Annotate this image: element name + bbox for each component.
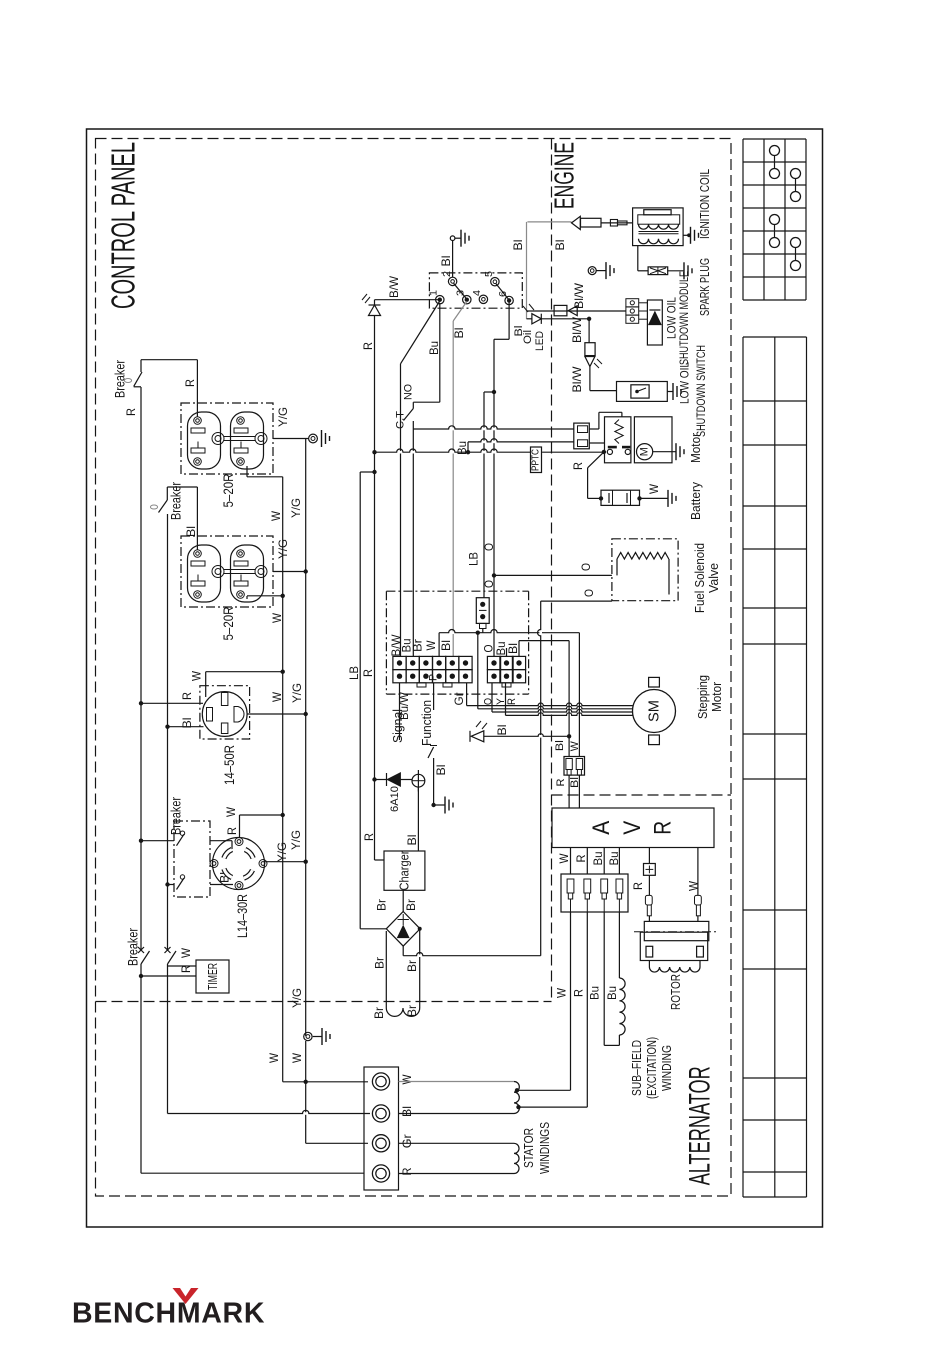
- svg-text:R: R: [180, 692, 194, 700]
- svg-text:Y/G: Y/G: [289, 498, 303, 518]
- svg-text:5–20R: 5–20R: [220, 474, 236, 508]
- svg-text:Valve: Valve: [707, 563, 721, 593]
- svg-text:BENCHMARK: BENCHMARK: [72, 1298, 265, 1330]
- svg-text:W: W: [290, 1052, 304, 1063]
- svg-text:Br: Br: [404, 899, 418, 911]
- svg-text:Br: Br: [411, 639, 425, 652]
- svg-text:6A10: 6A10: [389, 786, 401, 812]
- svg-text:Bl: Bl: [569, 777, 581, 788]
- svg-text:Bl/W: Bl/W: [570, 366, 584, 393]
- svg-text:Br: Br: [375, 899, 389, 911]
- svg-text:ENGINE: ENGINE: [549, 142, 580, 209]
- svg-text:Bl/W: Bl/W: [570, 316, 584, 343]
- svg-text:Bu: Bu: [607, 852, 621, 866]
- svg-text:PPTC: PPTC: [531, 449, 542, 471]
- svg-text:Bu: Bu: [427, 341, 441, 355]
- svg-text:W: W: [179, 947, 193, 958]
- svg-text:SHUTDOWN SWITCH: SHUTDOWN SWITCH: [694, 345, 708, 437]
- svg-text:R: R: [225, 827, 239, 835]
- svg-text:W: W: [687, 880, 701, 891]
- svg-text:2: 2: [442, 271, 453, 277]
- svg-text:Br: Br: [373, 957, 387, 969]
- svg-text:Bl: Bl: [405, 835, 419, 846]
- svg-text:Bu: Bu: [455, 441, 469, 455]
- svg-text:LED: LED: [534, 331, 546, 351]
- svg-text:R: R: [631, 882, 645, 890]
- svg-text:ROTOR: ROTOR: [669, 974, 683, 1010]
- svg-text:R: R: [506, 698, 518, 705]
- svg-text:W: W: [224, 806, 238, 817]
- svg-text:A: A: [588, 821, 615, 835]
- svg-text:W: W: [647, 483, 661, 494]
- svg-text:Br: Br: [405, 960, 419, 972]
- svg-text:SM: SM: [646, 700, 663, 722]
- svg-text:M: M: [639, 447, 651, 456]
- svg-text:O: O: [482, 543, 496, 551]
- svg-text:5–20R: 5–20R: [220, 607, 236, 641]
- svg-text:LOW OIL: LOW OIL: [678, 362, 692, 404]
- svg-text:Function: Function: [420, 700, 434, 746]
- svg-text:(EXCITATION): (EXCITATION): [645, 1037, 659, 1099]
- svg-text:Bu: Bu: [588, 986, 602, 1000]
- svg-text:Motor: Motor: [710, 682, 724, 712]
- svg-text:R: R: [361, 342, 375, 350]
- svg-text:Gr: Gr: [452, 693, 466, 706]
- svg-text:R: R: [400, 1167, 414, 1175]
- svg-text:Bl: Bl: [184, 526, 198, 537]
- svg-text:Bl: Bl: [439, 640, 453, 651]
- svg-text:NO: NO: [403, 384, 415, 400]
- svg-text:ALTERNATOR: ALTERNATOR: [684, 1066, 717, 1185]
- svg-text:Bl: Bl: [511, 240, 525, 251]
- svg-text:Br: Br: [372, 1007, 386, 1019]
- svg-text:Fuel Solenoid: Fuel Solenoid: [693, 543, 707, 613]
- svg-text:R: R: [571, 462, 585, 470]
- svg-text:Bu: Bu: [591, 852, 605, 866]
- svg-text:Bl: Bl: [513, 326, 525, 337]
- svg-text:W: W: [400, 1074, 414, 1085]
- svg-text:L14–30R: L14–30R: [234, 894, 250, 938]
- svg-text:Bl: Bl: [452, 328, 466, 339]
- svg-text:Charger: Charger: [397, 850, 412, 891]
- svg-text:W: W: [269, 510, 283, 521]
- svg-text:SHUTDOWN MODULE: SHUTDOWN MODULE: [677, 271, 691, 365]
- svg-text:W: W: [557, 853, 571, 864]
- svg-text:Y/G: Y/G: [290, 683, 304, 703]
- svg-text:Bl: Bl: [180, 718, 194, 729]
- svg-text:R: R: [362, 833, 376, 841]
- svg-text:R: R: [650, 821, 677, 835]
- svg-text:Stepping: Stepping: [696, 675, 710, 719]
- svg-text:Bl: Bl: [434, 765, 448, 776]
- svg-text:SPARK PLUG: SPARK PLUG: [698, 258, 712, 316]
- svg-text:5: 5: [484, 271, 495, 277]
- svg-text:14–50R: 14–50R: [221, 745, 237, 785]
- svg-text:Y/G: Y/G: [276, 407, 290, 427]
- svg-text:Bl: Bl: [495, 725, 509, 736]
- svg-text:TIMER: TIMER: [205, 963, 220, 990]
- svg-text:C.T: C.T: [395, 411, 407, 429]
- svg-text:SUB–FIELD: SUB–FIELD: [630, 1040, 644, 1096]
- svg-text:W: W: [569, 741, 581, 752]
- svg-text:Br: Br: [405, 1005, 419, 1017]
- svg-text:O: O: [579, 563, 593, 571]
- svg-text:W: W: [555, 987, 569, 998]
- svg-text:IGNITION COIL: IGNITION COIL: [698, 169, 712, 239]
- svg-text:Bl: Bl: [439, 256, 453, 267]
- svg-text:W: W: [189, 670, 203, 681]
- svg-text:CONTROL PANEL: CONTROL PANEL: [105, 142, 142, 309]
- svg-text:Bl: Bl: [506, 643, 520, 654]
- svg-text:R: R: [183, 379, 197, 387]
- svg-text:W: W: [270, 612, 284, 623]
- svg-text:4: 4: [472, 290, 483, 296]
- svg-text:P: P: [428, 674, 440, 681]
- svg-text:R: R: [124, 408, 138, 416]
- svg-text:V: V: [619, 821, 646, 835]
- svg-text:Breaker: Breaker: [169, 797, 184, 835]
- svg-text:STATOR: STATOR: [522, 1128, 536, 1168]
- svg-text:Bl: Bl: [554, 740, 566, 751]
- svg-text:Y/G: Y/G: [290, 988, 304, 1008]
- svg-text:LB: LB: [467, 552, 481, 566]
- svg-text:Y/G: Y/G: [275, 842, 289, 862]
- svg-text:Y/G: Y/G: [289, 830, 303, 850]
- svg-text:O: O: [582, 589, 596, 597]
- svg-text:LB: LB: [347, 666, 361, 680]
- svg-text:B/W: B/W: [387, 275, 401, 298]
- svg-text:Battery: Battery: [689, 481, 703, 520]
- svg-text:W: W: [267, 1052, 281, 1063]
- svg-text:R: R: [572, 989, 586, 997]
- svg-text:W: W: [424, 640, 438, 651]
- svg-text:Bl/W: Bl/W: [572, 282, 586, 309]
- svg-text:W: W: [270, 691, 284, 702]
- svg-text:R: R: [179, 965, 193, 973]
- svg-text:WINDINGS: WINDINGS: [538, 1122, 552, 1174]
- svg-text:Gr: Gr: [400, 1134, 414, 1148]
- svg-text:R: R: [574, 854, 588, 862]
- svg-text:Y/G: Y/G: [276, 539, 290, 559]
- svg-text:Bl: Bl: [400, 1106, 414, 1117]
- svg-text:WINDING: WINDING: [660, 1045, 674, 1091]
- svg-text:1: 1: [429, 290, 440, 296]
- svg-text:R: R: [555, 778, 567, 786]
- svg-text:Bu: Bu: [605, 986, 619, 1000]
- svg-text:R: R: [361, 669, 375, 677]
- svg-text:Bl: Bl: [553, 240, 567, 251]
